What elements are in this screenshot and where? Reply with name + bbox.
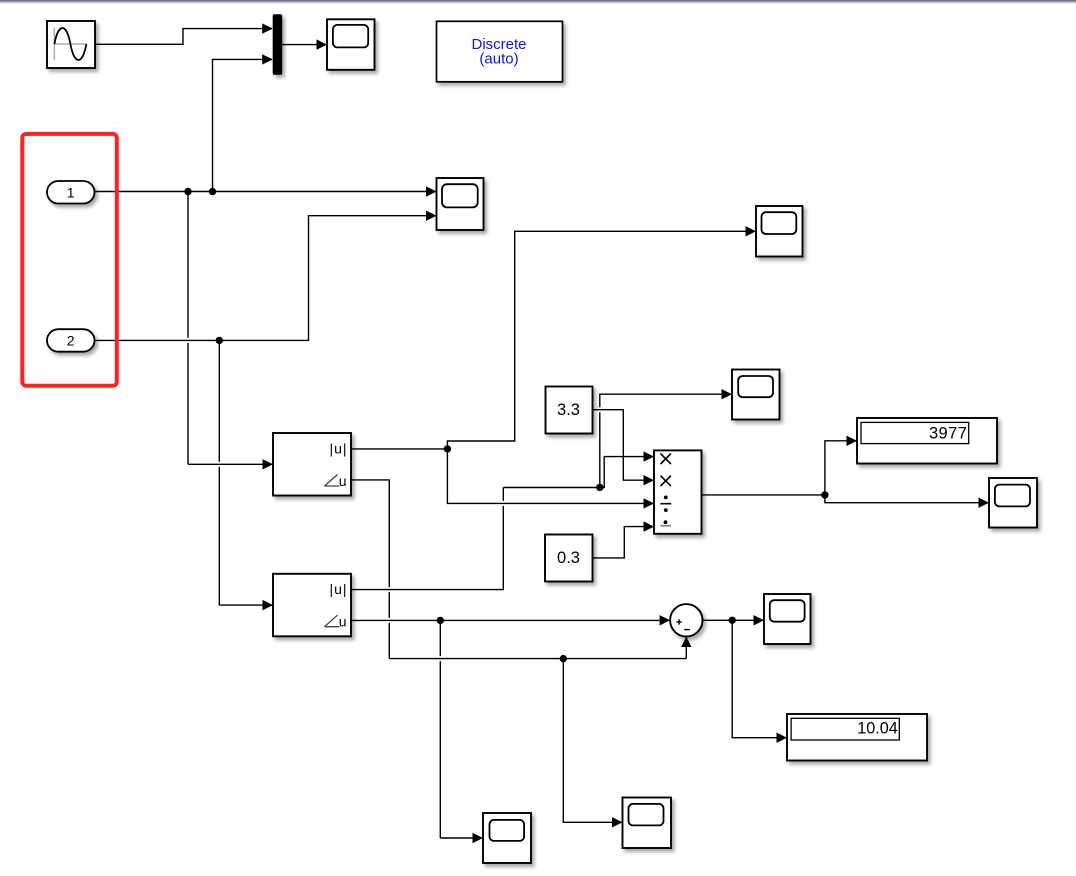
wire branch node to scope7 [563, 659, 622, 823]
arrowhead scope1 in [317, 39, 328, 49]
wire mux out to scope [282, 44, 327, 46]
scope3 [756, 206, 803, 257]
scope8 [764, 594, 811, 644]
scope5 [989, 478, 1037, 528]
arrowhead scope8 in [754, 615, 765, 625]
toolbar bottom border [0, 0, 1076, 2]
scope6 [483, 813, 531, 863]
arrowhead display 10.04 in [777, 733, 788, 743]
wire inport1 to scope2 in1 [95, 191, 437, 193]
node junction on inport1 wire at x188 [184, 188, 191, 195]
inport 1 [47, 181, 95, 204]
node junction U2 magnitude [596, 484, 603, 491]
arrowhead sum bottom in [681, 637, 691, 648]
svg-text:1: 1 [67, 184, 75, 200]
svg-text:|u|: |u| [329, 581, 347, 597]
scope1 [327, 19, 375, 70]
arrowhead scope5 in [979, 498, 990, 508]
node junction U2 angle branch [437, 617, 444, 624]
wire constant 0.3 to product in4 [593, 527, 655, 558]
arrowhead display 3977 in [847, 436, 858, 446]
scope4 [732, 370, 780, 420]
svg-text:2: 2 [67, 333, 75, 349]
wire branch inport1 to U1 input [188, 192, 273, 465]
arrowhead U1 in [263, 459, 274, 469]
wire branch inport2 to U2 input [219, 340, 273, 605]
annotation Discrete (auto) [437, 21, 563, 82]
arrowhead scope3 in [746, 226, 757, 236]
wire sine to mux in1 [95, 29, 272, 45]
constant 3.3 [546, 387, 593, 434]
arrowhead U2 in [263, 600, 274, 610]
svg-text:|u|: |u| [329, 441, 347, 457]
scope7 [623, 798, 672, 849]
arrowhead mux in1 [262, 23, 273, 33]
svg-text:10.04: 10.04 [857, 720, 898, 738]
arrowhead product in4 [644, 521, 655, 531]
arrowhead scope4 in [722, 389, 733, 399]
svg-text:0.3: 0.3 [557, 549, 580, 567]
constant 0.3 [545, 535, 593, 582]
wire product out to node then display 3977 and scope5 [702, 441, 990, 503]
arrowhead product in1 [644, 451, 655, 461]
complex to magnitude-angle U2 [273, 574, 351, 637]
node junction on inport1 wire at x212.5 [209, 188, 216, 195]
arrowhead product in2 [644, 475, 655, 485]
wire U2 angle out to sum plus input [351, 619, 670, 621]
display 3977 [857, 418, 997, 464]
svg-text:(auto): (auto) [479, 51, 518, 68]
arrowhead product in3 [644, 498, 655, 508]
wire U1 angle out to sum minus input [351, 480, 686, 659]
arrowhead mux in2 [262, 54, 273, 64]
wire inport2 to scope2 in2 [95, 216, 437, 341]
node junction U1 angle branch [560, 655, 567, 662]
svg-text:3977: 3977 [929, 424, 967, 442]
wire U1 |u| out to node then scope3 and product in3 [351, 231, 756, 503]
wire branch inport1 to mux in2 [213, 59, 273, 191]
svg-text:u: u [339, 473, 347, 489]
arrowhead scope6 in [473, 833, 484, 843]
node junction on inport2 wire [216, 337, 223, 344]
node junction product out [821, 491, 828, 498]
arrowhead scope7 in [612, 817, 623, 827]
node junction sum out [729, 617, 736, 624]
arrowhead sum left in [660, 615, 671, 625]
arrowhead scope2 in2 [426, 211, 437, 221]
node junction U1 magnitude [444, 445, 451, 452]
mux [273, 14, 283, 75]
complex to magnitude-angle U1 [273, 433, 351, 496]
sum block [670, 604, 702, 636]
svg-text:3.3: 3.3 [557, 401, 580, 419]
wire constant 3.3 to product in2 [593, 410, 655, 481]
red selection rectangle [22, 134, 117, 386]
sine wave source block [47, 21, 95, 68]
display 10.04 [787, 714, 927, 761]
wire sum out to node then scope8 and display 10.04 [703, 620, 788, 737]
scope2 two inputs [437, 178, 484, 230]
inport 2 [47, 329, 95, 352]
product divide block [654, 450, 702, 533]
wire U2 |u| out to node then scope4 and product in1 [351, 394, 732, 589]
arrowhead scope2 in1 [426, 186, 437, 196]
wire branch node to scope6 [440, 620, 483, 838]
svg-text:u: u [339, 614, 347, 630]
